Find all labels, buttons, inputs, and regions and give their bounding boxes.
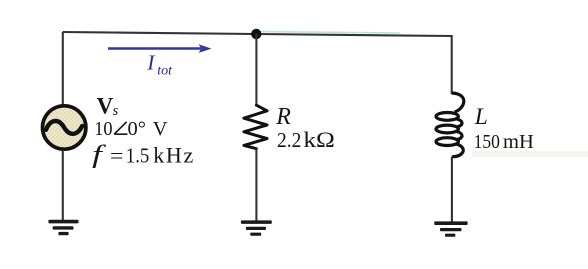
svg-text:1.5: 1.5	[126, 144, 150, 168]
svg-text:mH: mH	[503, 131, 534, 153]
junction node (top of R branch)	[251, 29, 261, 39]
current arrow Itot	[108, 44, 212, 53]
wire: top horizontal, junction to inductor branch	[256, 34, 452, 36]
resistor R	[244, 105, 267, 149]
svg-text:f: f	[92, 142, 106, 169]
resistor label R	[275, 104, 291, 130]
scan artifact: faint haze under 150 mH	[472, 151, 588, 157]
inductor L	[436, 93, 464, 157]
wire: resistor bottom lead	[255, 148, 257, 220]
svg-text:V: V	[153, 118, 168, 140]
svg-text:150: 150	[474, 131, 500, 153]
scan artifact: faint teal fringe above right top wire	[258, 32, 400, 33]
ground (right, below inductor)	[434, 221, 467, 236]
svg-text:10: 10	[94, 118, 112, 140]
wire: top horizontal, source to junction	[63, 32, 257, 34]
svg-text:2.2: 2.2	[277, 128, 301, 152]
svg-text:kHz: kHz	[153, 143, 195, 168]
ground (left, below source)	[48, 220, 78, 236]
svg-text:I: I	[146, 50, 155, 74]
svg-text:V: V	[97, 93, 114, 118]
svg-text:0°: 0°	[128, 118, 146, 140]
svg-text:R: R	[275, 104, 291, 130]
wire: source top lead	[62, 32, 64, 105]
voltage source Vs (AC source circle)	[42, 106, 85, 149]
source value label 10∠0° V	[94, 118, 168, 140]
inductor value 150 mH	[474, 131, 534, 153]
wire: junction to resistor top	[255, 34, 257, 106]
svg-text:=: =	[110, 144, 124, 168]
label Vs	[97, 93, 119, 118]
svg-text:s: s	[113, 103, 119, 119]
resistor value 2.2 kΩ	[277, 127, 335, 152]
wire: inductor bottom lead	[451, 157, 453, 222]
wire: junction-right corner to inductor top	[451, 35, 453, 94]
ground (middle, below resistor)	[241, 220, 272, 235]
svg-text:tot: tot	[157, 64, 173, 79]
wire: source bottom lead	[62, 150, 64, 220]
inductor label L	[474, 104, 488, 130]
label Itot	[146, 50, 173, 78]
frequency label f = 1.5 kHz	[92, 142, 195, 169]
svg-text:L: L	[474, 104, 488, 130]
svg-text:kΩ: kΩ	[303, 127, 335, 152]
